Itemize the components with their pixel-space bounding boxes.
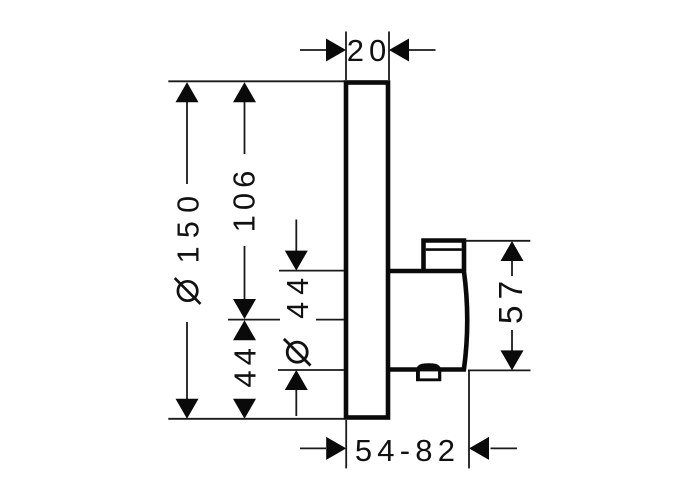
- svg-text:20: 20: [347, 33, 391, 68]
- svg-text:150: 150: [172, 188, 206, 264]
- svg-text:54-82: 54-82: [355, 433, 460, 468]
- svg-text:44: 44: [281, 271, 315, 319]
- svg-text:106: 106: [227, 166, 262, 233]
- svg-text:44: 44: [228, 343, 263, 387]
- svg-text:57: 57: [493, 275, 530, 324]
